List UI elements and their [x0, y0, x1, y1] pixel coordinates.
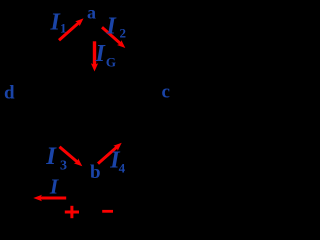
current arrow IG: [91, 41, 98, 71]
current arrow I (battery current): [33, 195, 66, 202]
svg-text:I: I: [45, 143, 57, 170]
current arrow I1: [59, 18, 84, 40]
wire c-b: [94, 92, 163, 165]
battery plate long (+): [79, 186, 81, 210]
svg-text:1: 1: [60, 20, 67, 35]
svg-text:I: I: [106, 13, 118, 39]
current arrow I3: [60, 147, 83, 166]
battery minus sign: [102, 210, 113, 213]
svg-text:I: I: [95, 41, 107, 67]
svg-text:I: I: [49, 175, 59, 199]
current arrow I2: [102, 27, 125, 48]
svg-text:G: G: [106, 55, 116, 70]
wire d-b: [15, 95, 94, 165]
svg-text:a: a: [87, 3, 96, 23]
label I2: [106, 13, 127, 40]
wire a-b (galvanometer branch): [93, 22, 95, 165]
svg-text:3: 3: [60, 158, 67, 173]
svg-text:4: 4: [119, 161, 126, 176]
galvanometer G: [82, 88, 106, 112]
battery plus sign: [65, 206, 79, 218]
wire battery-c (right bottom): [91, 92, 163, 198]
current arrow I4: [98, 143, 122, 164]
svg-text:b: b: [90, 162, 101, 183]
label I4: [109, 148, 125, 176]
svg-text:2: 2: [120, 26, 127, 41]
svg-text:c: c: [162, 82, 170, 103]
svg-text:d: d: [4, 83, 15, 104]
label I3: [45, 143, 67, 173]
label I1: [50, 9, 67, 35]
wire a-d: [15, 22, 91, 95]
label IG: [95, 41, 117, 70]
battery plate short (-): [87, 192, 91, 204]
wire d-battery (left bottom): [15, 95, 78, 198]
wire a-c: [91, 22, 163, 92]
